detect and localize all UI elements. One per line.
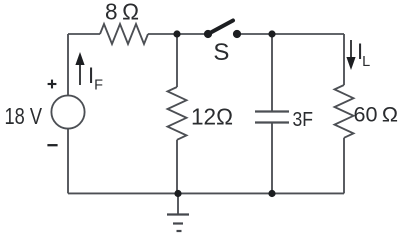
wire top middle to switch <box>148 33 208 35</box>
node dot bottom ground junction <box>174 190 181 197</box>
wire right vertical lower <box>343 138 345 194</box>
node dot top capacitor junction <box>268 30 275 37</box>
wire ground stub <box>177 193 179 214</box>
resistor R3 60ohm zigzag <box>335 85 354 138</box>
svg-text:IF: IF <box>88 63 103 93</box>
svg-text:3F: 3F <box>293 109 314 131</box>
ground symbol <box>167 215 189 232</box>
wire capacitor branch lower <box>271 123 273 194</box>
voltage source V1 18V circle <box>51 95 84 128</box>
wire left vertical upper (to source top) <box>67 34 69 95</box>
wire capacitor branch upper <box>271 34 273 111</box>
node dot top 12ohm junction <box>173 30 180 37</box>
wire right vertical upper (to 60ohm) <box>343 34 345 85</box>
capacitor C1 3F plates <box>255 112 289 123</box>
label - polarity <box>47 144 57 146</box>
switch S lever arm <box>208 21 233 35</box>
resistor R1 8ohm zigzag <box>100 24 148 44</box>
wire 12ohm branch upper <box>176 34 178 87</box>
current arrow I_F <box>75 52 84 85</box>
switch S left contact dot <box>204 30 212 38</box>
svg-text:12Ω: 12Ω <box>191 104 233 130</box>
current arrow I_L <box>346 40 355 70</box>
wire top-left horizontal <box>68 33 100 35</box>
wire switch right to top-right corner <box>237 33 344 35</box>
svg-text:18 V: 18 V <box>5 103 43 129</box>
wire 12ohm branch lower <box>176 140 178 194</box>
wire left vertical lower (source bottom to bottom rail) <box>67 129 69 193</box>
svg-text:8 Ω: 8 Ω <box>105 0 139 25</box>
svg-text:60 Ω: 60 Ω <box>354 103 399 127</box>
resistor R2 12ohm zigzag <box>168 87 187 140</box>
svg-text:S: S <box>213 39 229 66</box>
switch S right contact dot <box>233 30 241 38</box>
wire bottom rail <box>68 192 344 194</box>
svg-text:IL: IL <box>357 39 370 70</box>
label + polarity <box>48 80 57 89</box>
node dot bottom capacitor junction <box>268 190 275 197</box>
